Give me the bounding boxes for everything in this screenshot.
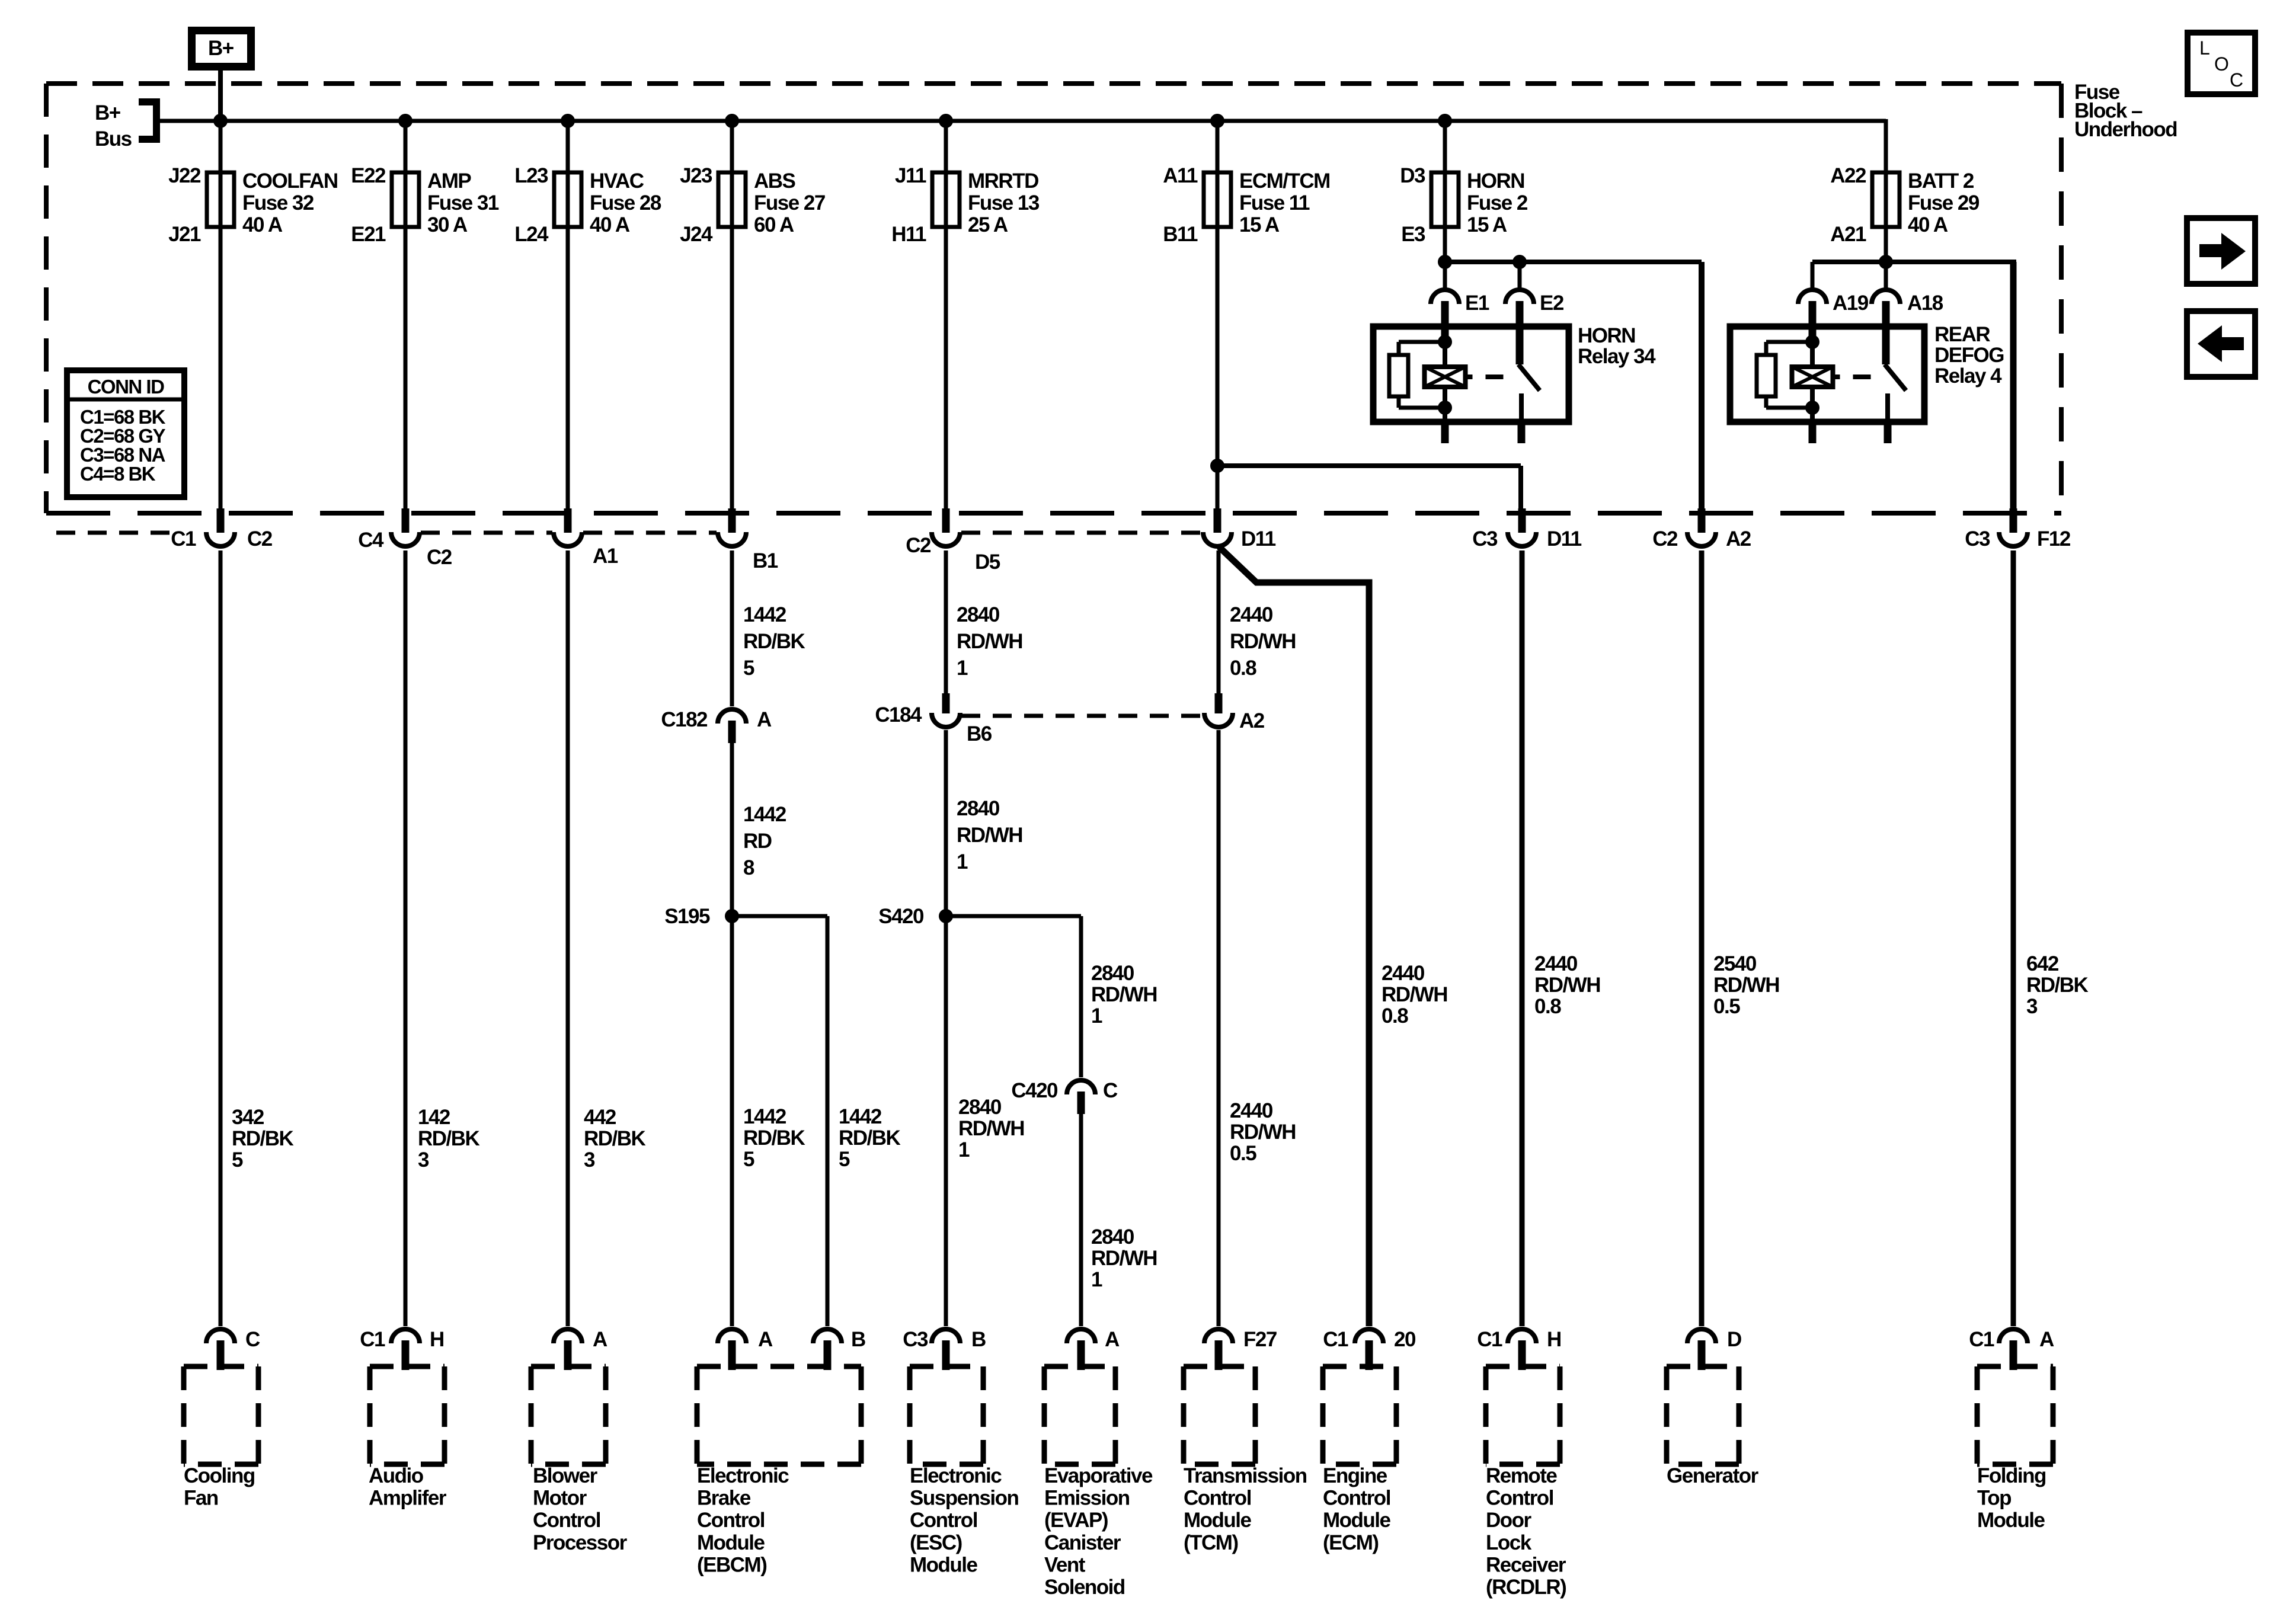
fuse AMP Fuse 31 (E22/E21): [351, 164, 499, 246]
svg-text:RD: RD: [743, 830, 772, 853]
svg-text:Control: Control: [1486, 1487, 1553, 1510]
svg-text:C4=8 BK: C4=8 BK: [80, 463, 156, 485]
svg-text:AMP: AMP: [427, 169, 471, 193]
junction on B+ bus x=2054: [1210, 114, 1224, 128]
svg-text:Fuse 11: Fuse 11: [1239, 191, 1310, 215]
svg-text:RD/WH: RD/WH: [1713, 974, 1779, 997]
svg-text:40 A: 40 A: [590, 213, 630, 236]
svg-text:Bus: Bus: [95, 127, 132, 151]
connector A (EVAP): [1067, 1328, 1120, 1370]
connector A2: [1204, 693, 1265, 732]
svg-text:Lock: Lock: [1486, 1531, 1532, 1554]
junction horn feed E1: [1438, 255, 1452, 269]
svg-text:A: A: [758, 1328, 773, 1351]
svg-text:142: 142: [418, 1106, 450, 1129]
connector C2-A2: [1652, 508, 1751, 550]
component Blower Motor Control Processor box: [531, 1366, 628, 1554]
svg-text:442: 442: [584, 1106, 616, 1129]
fuse ABS Fuse 27 (J23/J24): [680, 164, 825, 246]
relay HORN coil and resistor: [1389, 335, 1540, 443]
svg-text:2440: 2440: [1534, 952, 1578, 975]
svg-text:1: 1: [957, 850, 968, 873]
connector C1-C2: [171, 508, 273, 550]
junction defog feed A18: [1879, 255, 1893, 269]
svg-text:C2: C2: [247, 527, 273, 550]
svg-text:8: 8: [743, 856, 754, 879]
connector pin A18: [1872, 290, 1943, 364]
svg-text:5: 5: [839, 1148, 850, 1171]
svg-text:Transmission: Transmission: [1184, 1464, 1307, 1487]
wire 2840 RD/WH 1 to C420: [1081, 916, 1157, 1077]
svg-text:20: 20: [1394, 1328, 1416, 1351]
wire 2440 RD/WH 0.8 upper: [1219, 550, 1296, 693]
splice S195: [664, 905, 739, 928]
wire 2840 RD/WH 1 to ESC: [946, 916, 1024, 1326]
wire 442 RD/BK 3: [568, 550, 646, 1326]
svg-text:COOLFAN: COOLFAN: [242, 169, 338, 193]
component ECM box: [1323, 1366, 1396, 1554]
svg-text:Motor: Motor: [533, 1487, 587, 1510]
svg-text:A: A: [2039, 1328, 2054, 1351]
svg-text:O: O: [2214, 53, 2229, 75]
svg-text:3: 3: [584, 1148, 595, 1172]
svg-text:A: A: [757, 708, 772, 731]
svg-text:C3: C3: [1472, 527, 1498, 550]
svg-text:Vent: Vent: [1044, 1553, 1086, 1576]
wire 2540 RD/WH 0.5 to Generator: [1702, 550, 1779, 1326]
svg-text:RD/WH: RD/WH: [958, 1117, 1024, 1140]
svg-text:0.8: 0.8: [1382, 1004, 1408, 1028]
junction on B+ bus x=372: [213, 114, 228, 128]
svg-text:C2: C2: [427, 546, 452, 569]
fuse ECM/TCM Fuse 11 (A11/B11): [1163, 164, 1330, 246]
svg-text:F27: F27: [1243, 1328, 1277, 1351]
svg-text:A19: A19: [1833, 292, 1869, 315]
svg-text:RD/WH: RD/WH: [1091, 1247, 1157, 1270]
fuse block underhood dashed border: [46, 84, 2061, 513]
svg-text:Door: Door: [1486, 1509, 1532, 1532]
wire bus through fuse x=2438: [1443, 119, 1447, 262]
svg-text:E3: E3: [1401, 223, 1425, 246]
svg-text:Fuse 29: Fuse 29: [1908, 191, 1980, 215]
svg-text:Receiver: Receiver: [1486, 1553, 1566, 1576]
wire 642 RD/BK 3 to Folding Top: [2013, 550, 2089, 1326]
svg-text:B+: B+: [95, 101, 121, 124]
component Generator box: [1667, 1366, 1759, 1487]
svg-text:A2: A2: [1726, 527, 1751, 550]
connector C1-H (RCDLR): [1477, 1328, 1561, 1370]
connector pin E1: [1431, 290, 1489, 342]
wire bus through fuse x=372: [219, 119, 223, 513]
svg-text:S420: S420: [878, 905, 924, 928]
svg-text:1: 1: [958, 1138, 970, 1161]
svg-text:Blower: Blower: [533, 1464, 598, 1487]
svg-text:Engine: Engine: [1323, 1464, 1387, 1487]
svg-text:Electronic: Electronic: [697, 1464, 789, 1487]
svg-text:B: B: [851, 1328, 865, 1351]
connector C420 pin C: [1011, 1079, 1118, 1114]
wire B+ bus: [159, 119, 1886, 123]
svg-text:C3: C3: [903, 1328, 928, 1351]
svg-text:E21: E21: [351, 223, 386, 246]
svg-text:Fuse 28: Fuse 28: [590, 191, 661, 215]
svg-text:Control: Control: [910, 1509, 977, 1532]
svg-text:D: D: [1727, 1328, 1741, 1351]
relay REAR DEFOG coil and resistor: [1757, 335, 1906, 443]
svg-text:B+: B+: [208, 37, 234, 60]
connector pin E2: [1505, 290, 1564, 364]
svg-text:C: C: [245, 1328, 260, 1351]
svg-text:2440: 2440: [1382, 962, 1425, 985]
svg-text:1442: 1442: [743, 803, 786, 826]
svg-text:Amplifer: Amplifer: [369, 1487, 447, 1510]
LOC legend box: [2188, 33, 2255, 94]
svg-text:HVAC: HVAC: [590, 169, 644, 193]
wire 1442 RD/BK 5 upper: [732, 550, 805, 706]
svg-text:C2: C2: [906, 534, 931, 557]
svg-text:C4: C4: [358, 529, 384, 552]
B+ power terminal: [192, 31, 251, 67]
svg-text:J24: J24: [680, 223, 713, 246]
junction on B+ bus x=1235: [725, 114, 739, 128]
junction horn feed E2: [1512, 255, 1527, 269]
wire horn feed to C2-A2: [1699, 262, 1705, 511]
wire bus through fuse x=1596: [944, 119, 948, 513]
svg-text:2440: 2440: [1230, 1099, 1273, 1122]
wire 2840 RD/WH 1 to EVAP: [1081, 1114, 1157, 1326]
svg-text:Electronic: Electronic: [910, 1464, 1002, 1487]
svg-text:0.5: 0.5: [1713, 995, 1740, 1018]
svg-text:Underhood: Underhood: [2074, 118, 2177, 141]
wire defog feed to C3-F12: [2010, 262, 2017, 511]
component ESC box: [910, 1366, 1018, 1576]
connector C3-B (ESC): [903, 1328, 986, 1370]
svg-text:MRRTD: MRRTD: [968, 169, 1038, 193]
svg-text:J21: J21: [168, 223, 201, 246]
svg-text:ABS: ABS: [754, 169, 795, 193]
svg-text:Fuse 27: Fuse 27: [754, 191, 825, 215]
svg-text:A1: A1: [593, 545, 618, 568]
wire bus through fuse x=684: [404, 119, 408, 513]
svg-text:E22: E22: [351, 164, 386, 187]
svg-text:RD/WH: RD/WH: [1230, 630, 1296, 653]
svg-text:342: 342: [232, 1106, 264, 1129]
svg-text:Remote: Remote: [1486, 1464, 1557, 1487]
component EBCM box: [697, 1366, 861, 1576]
svg-text:Fuse 32: Fuse 32: [242, 191, 314, 215]
svg-text:RD/WH: RD/WH: [957, 630, 1022, 653]
wire bus through fuse x=1235: [730, 119, 734, 513]
svg-text:A: A: [593, 1328, 607, 1351]
svg-text:(ECM): (ECM): [1323, 1531, 1379, 1554]
fuse HVAC Fuse 28 (L23/L24): [514, 164, 661, 246]
connector C3-F12: [1965, 508, 2071, 550]
connector A (EBCM): [718, 1328, 773, 1370]
svg-text:C1: C1: [1477, 1328, 1502, 1351]
svg-text:1442: 1442: [743, 603, 786, 626]
svg-text:0.8: 0.8: [1534, 995, 1561, 1018]
svg-text:C420: C420: [1011, 1079, 1058, 1102]
wire 1442 RD/BK 5 to EBCM B: [827, 916, 901, 1326]
svg-text:2840: 2840: [957, 797, 1000, 820]
svg-text:Processor: Processor: [533, 1531, 628, 1554]
wire 342 RD/BK 5: [220, 550, 294, 1326]
wire B+ drop to bus: [218, 71, 223, 121]
wire S420 branch: [946, 914, 1081, 918]
svg-text:E1: E1: [1465, 292, 1489, 315]
svg-text:HORN: HORN: [1467, 169, 1524, 193]
dashed tie C2D5-D11: [961, 531, 1202, 535]
svg-text:5: 5: [743, 1148, 754, 1171]
svg-text:D3: D3: [1400, 164, 1425, 187]
relay HORN Relay 34 box: [1373, 327, 1569, 422]
dashed tie A1-B1: [583, 531, 717, 535]
svg-text:B1: B1: [753, 549, 778, 572]
component EVAP box: [1044, 1366, 1153, 1599]
svg-text:Fuse 13: Fuse 13: [968, 191, 1040, 215]
svg-text:Module: Module: [910, 1553, 978, 1576]
B+ Bus label: [95, 101, 132, 151]
connector C1-20 (ECM): [1323, 1328, 1416, 1370]
svg-text:J22: J22: [168, 164, 201, 187]
svg-text:Module: Module: [1323, 1509, 1391, 1532]
svg-text:Suspension: Suspension: [910, 1487, 1018, 1510]
fuse BATT 2 Fuse 29 (A22/A21): [1830, 164, 1980, 246]
svg-text:BATT 2: BATT 2: [1908, 169, 1974, 193]
svg-text:RD/BK: RD/BK: [743, 630, 805, 653]
svg-text:2540: 2540: [1713, 952, 1757, 975]
wire S195 branch: [732, 914, 827, 918]
wire 2840 RD/WH 1 upper: [946, 550, 1022, 693]
svg-text:B6: B6: [967, 722, 992, 745]
svg-text:Emission: Emission: [1044, 1487, 1130, 1510]
svg-text:1: 1: [1091, 1268, 1102, 1291]
svg-text:RD/BK: RD/BK: [743, 1126, 805, 1150]
svg-text:A21: A21: [1830, 223, 1866, 246]
splice S420: [878, 905, 953, 928]
connector A1: [554, 508, 618, 568]
wire defog relay feed: [1812, 260, 2016, 264]
svg-text:H11: H11: [891, 223, 926, 246]
connector C4-C2: [358, 508, 452, 569]
svg-text:1442: 1442: [839, 1105, 882, 1128]
wire bus through fuse x=3182: [1884, 119, 1888, 262]
svg-text:A11: A11: [1163, 164, 1198, 187]
svg-text:25 A: 25 A: [968, 213, 1008, 236]
svg-text:RD/BK: RD/BK: [584, 1127, 646, 1150]
svg-text:A: A: [1105, 1328, 1120, 1351]
svg-text:0.8: 0.8: [1230, 657, 1256, 680]
svg-text:C1: C1: [1969, 1328, 1994, 1351]
svg-text:Control: Control: [1323, 1487, 1390, 1510]
svg-text:RD/BK: RD/BK: [232, 1127, 294, 1150]
svg-text:15 A: 15 A: [1467, 213, 1507, 236]
fuse MRRTD Fuse 13 (J11/H11): [891, 164, 1040, 246]
label HORN Relay 34: [1578, 324, 1656, 368]
svg-text:(TCM): (TCM): [1184, 1531, 1238, 1554]
svg-text:REAR: REAR: [1934, 323, 1990, 346]
svg-text:Relay 4: Relay 4: [1934, 364, 2002, 388]
svg-text:F12: F12: [2037, 527, 2071, 550]
wire 2840 RD/WH 1 mid: [946, 730, 1022, 916]
svg-text:RD/BK: RD/BK: [418, 1127, 480, 1150]
svg-text:1: 1: [957, 657, 968, 680]
wire E1 drop: [1443, 262, 1447, 289]
relay REAR DEFOG Relay 4 box: [1730, 327, 1924, 422]
connector C184 pin B6: [875, 693, 992, 745]
label REAR DEFOG Relay 4: [1934, 323, 2004, 388]
svg-text:RD/WH: RD/WH: [1534, 974, 1600, 997]
svg-text:Canister: Canister: [1044, 1531, 1121, 1554]
svg-text:Cooling: Cooling: [184, 1464, 255, 1487]
connector A (blower): [554, 1328, 607, 1370]
svg-text:C: C: [1103, 1079, 1118, 1102]
junction on B+ bus x=2438: [1438, 114, 1452, 128]
connector D (generator): [1687, 1328, 1741, 1370]
svg-text:5: 5: [743, 657, 754, 680]
svg-text:Module: Module: [1977, 1509, 2045, 1532]
svg-text:DEFOG: DEFOG: [1934, 344, 2004, 367]
svg-text:Evaporative: Evaporative: [1044, 1464, 1153, 1487]
svg-text:HORN: HORN: [1578, 324, 1635, 347]
svg-text:Audio: Audio: [369, 1464, 424, 1487]
component TCM box: [1184, 1366, 1307, 1554]
svg-text:Control: Control: [1184, 1487, 1251, 1510]
svg-text:1: 1: [1091, 1004, 1102, 1028]
svg-text:H: H: [430, 1328, 444, 1351]
svg-text:3: 3: [418, 1148, 429, 1172]
svg-text:(RCDLR): (RCDLR): [1486, 1576, 1566, 1599]
svg-text:A2: A2: [1239, 709, 1265, 732]
wire 1442 RD/BK 5 to EBCM A: [732, 916, 805, 1326]
svg-text:60 A: 60 A: [754, 213, 794, 236]
svg-text:Fuse 31: Fuse 31: [427, 191, 499, 215]
svg-text:L: L: [2199, 37, 2210, 59]
svg-text:0.5: 0.5: [1230, 1142, 1256, 1165]
svg-text:RD/BK: RD/BK: [2026, 974, 2089, 997]
svg-text:Fan: Fan: [184, 1487, 218, 1510]
svg-text:RD/WH: RD/WH: [1382, 983, 1447, 1006]
svg-text:Folding: Folding: [1977, 1464, 2046, 1487]
svg-text:A18: A18: [1907, 292, 1943, 315]
B+ bus bracket: [139, 100, 160, 142]
connector C182 pin A: [661, 708, 772, 743]
connector C2-D5: [906, 508, 1000, 574]
svg-text:(EBCM): (EBCM): [697, 1553, 766, 1576]
svg-text:Top: Top: [1977, 1487, 2011, 1510]
svg-text:S195: S195: [664, 905, 710, 928]
wire A18 drop: [1884, 262, 1888, 289]
svg-text:C184: C184: [875, 703, 922, 726]
svg-text:D5: D5: [975, 550, 1000, 574]
svg-text:Control: Control: [697, 1509, 765, 1532]
svg-text:C2: C2: [1652, 527, 1678, 550]
svg-text:L23: L23: [514, 164, 548, 187]
svg-text:Generator: Generator: [1667, 1464, 1759, 1487]
svg-text:E2: E2: [1540, 292, 1564, 315]
component Cooling Fan box: [184, 1366, 258, 1510]
wire horn relay feed: [1445, 260, 1702, 264]
svg-text:D11: D11: [1547, 527, 1582, 550]
connector C1-H (audio amp): [360, 1328, 444, 1370]
component Folding Top Module box: [1977, 1366, 2053, 1532]
svg-text:1442: 1442: [743, 1105, 786, 1128]
junction on B+ bus x=1596: [939, 114, 953, 128]
fuse COOLFAN Fuse 32 (J22/J21): [168, 164, 338, 246]
svg-text:Control: Control: [533, 1509, 600, 1532]
svg-text:RD/WH: RD/WH: [957, 824, 1022, 847]
CONN ID table: [67, 370, 184, 497]
svg-text:H: H: [1547, 1328, 1561, 1351]
svg-text:Brake: Brake: [697, 1487, 751, 1510]
svg-text:2440: 2440: [1230, 603, 1273, 626]
wire 2440 RD/WH 0.8 to RCDLR: [1522, 550, 1600, 1326]
wire D11 to ECM: [1219, 547, 1447, 1326]
wire E2 drop: [1518, 262, 1522, 289]
junction ECM/TCM branch: [1210, 459, 1224, 473]
label Fuse Block - Underhood: [2074, 81, 2177, 141]
svg-text:(ESC): (ESC): [910, 1531, 962, 1554]
svg-text:C182: C182: [661, 708, 708, 731]
connector F27 (TCM): [1204, 1328, 1277, 1370]
component Audio Amplifer box: [369, 1366, 447, 1510]
dashed tie C4C2-A1: [421, 531, 552, 535]
arrow previous page left: [2187, 311, 2255, 377]
svg-text:C: C: [2230, 69, 2243, 91]
svg-text:2840: 2840: [1091, 962, 1134, 985]
svg-text:B11: B11: [1163, 223, 1198, 246]
connector B (EBCM): [813, 1328, 865, 1370]
svg-text:CONN ID: CONN ID: [88, 376, 165, 398]
svg-text:Solenoid: Solenoid: [1044, 1576, 1125, 1599]
wire A19 drop: [1811, 262, 1815, 289]
svg-text:Relay 34: Relay 34: [1578, 345, 1656, 368]
component RCDLR box: [1486, 1366, 1566, 1599]
wire bus through fuse x=958: [566, 119, 570, 513]
svg-text:5: 5: [232, 1148, 243, 1172]
svg-text:40 A: 40 A: [242, 213, 283, 236]
svg-text:15 A: 15 A: [1239, 213, 1280, 236]
svg-text:2840: 2840: [1091, 1225, 1134, 1249]
svg-text:642: 642: [2026, 952, 2059, 975]
wire to C3-D11 connector: [1217, 466, 1521, 511]
svg-text:Fuse 2: Fuse 2: [1467, 191, 1528, 215]
svg-text:(EVAP): (EVAP): [1044, 1509, 1108, 1532]
arrow next page right: [2187, 218, 2255, 284]
connector C (cooling fan): [206, 1328, 260, 1370]
svg-text:40 A: 40 A: [1908, 213, 1948, 236]
svg-text:Module: Module: [697, 1531, 765, 1554]
svg-text:2840: 2840: [957, 603, 1000, 626]
svg-text:D11: D11: [1241, 527, 1276, 550]
svg-text:3: 3: [2026, 995, 2038, 1018]
svg-text:A22: A22: [1830, 164, 1866, 187]
connector D11: [1203, 508, 1276, 550]
connector pin A19: [1798, 290, 1869, 342]
svg-text:C3: C3: [1965, 527, 1990, 550]
wire 2440 RD/WH 0.5 to TCM: [1219, 730, 1296, 1326]
svg-text:L24: L24: [514, 223, 549, 246]
svg-text:Module: Module: [1184, 1509, 1252, 1532]
svg-text:RD/WH: RD/WH: [1091, 983, 1157, 1006]
connector C3-D11: [1472, 508, 1582, 550]
svg-text:C1: C1: [171, 527, 196, 550]
connector C1-A (folding top): [1969, 1328, 2054, 1370]
connector B1: [718, 508, 778, 572]
junction on B+ bus x=684: [398, 114, 412, 128]
svg-text:C1: C1: [1323, 1328, 1348, 1351]
wire 142 RD/BK 3: [405, 550, 480, 1326]
